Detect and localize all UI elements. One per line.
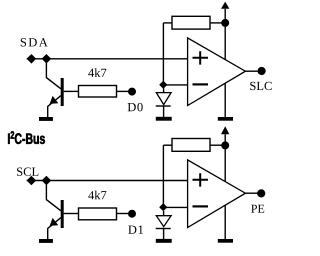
node junction diamond on SCL wire bbox=[42, 176, 52, 186]
node supply dot bottom bbox=[221, 141, 229, 149]
wire U1 output bbox=[245, 70, 257, 72]
resistor feedback R4 bottom bbox=[172, 139, 210, 152]
node SCL terminal diamond bbox=[27, 176, 37, 186]
label D0 bbox=[128, 103, 143, 111]
wire emitter Q1 bbox=[48, 96, 61, 118]
node SDA terminal diamond bbox=[27, 54, 37, 64]
transistor Q1 emitter arrow (PNP) bbox=[50, 96, 59, 104]
label 4k7 top bbox=[88, 68, 106, 77]
wire feedback rail top bbox=[163, 22, 172, 24]
transistor Q1 base bar bbox=[61, 78, 64, 106]
diode D4 triangle bbox=[156, 216, 171, 227]
node PE output dot bbox=[257, 189, 265, 197]
wire diode to ground bbox=[163, 106, 165, 117]
diode D3 triangle bbox=[156, 93, 171, 105]
label PE bbox=[251, 205, 264, 213]
resistor 4k7 bottom bbox=[79, 208, 117, 220]
wire U2 output bbox=[245, 192, 257, 194]
node SLC output dot bbox=[258, 67, 266, 75]
ground below U2 bbox=[218, 239, 233, 243]
wire resistor to D0 bbox=[117, 90, 129, 92]
ground below U1 bbox=[218, 117, 233, 121]
node junction diamond at D1 anode / - input bbox=[159, 81, 167, 89]
resistor feedback R2 top bbox=[172, 16, 210, 29]
wire supply vertical to U2 bbox=[224, 134, 226, 181]
op-amp U2 minus input symbol bbox=[193, 205, 209, 207]
wire diamond to diode D3 bbox=[163, 89, 165, 93]
wire diode to ground bbox=[163, 229, 165, 240]
ground below Q1 bbox=[39, 117, 53, 121]
op-amp U1 minus input symbol bbox=[193, 83, 209, 85]
wire SCL horizontal to op-amp U2 + input bbox=[27, 180, 188, 182]
wire resistor to D1 bbox=[117, 213, 129, 215]
op-amp U1 triangle bbox=[188, 38, 246, 106]
wire emitter Q2 bbox=[48, 218, 61, 240]
node SDA label bbox=[21, 38, 48, 46]
resistor 4k7 top bbox=[79, 86, 117, 98]
ground below diode D3 bbox=[156, 117, 172, 121]
wire feedback resistor to supply dot bottom bbox=[210, 144, 225, 146]
wire feedback left vertical bottom (to diode anode) bbox=[162, 145, 164, 207]
wire feedback resistor to supply dot bbox=[210, 22, 225, 24]
op-amp U2 plus input symbol bbox=[193, 173, 209, 186]
op-amp U1 plus input symbol bbox=[193, 51, 209, 64]
label SLC bbox=[250, 82, 271, 90]
node junction diamond at D4 anode / - input bbox=[159, 203, 167, 211]
transistor Q2 emitter arrow (PNP) bbox=[50, 218, 59, 226]
node supply dot bbox=[221, 19, 229, 27]
wire collector Q1 to resistor bbox=[64, 90, 79, 92]
wire U2 negative supply bbox=[224, 205, 226, 239]
label D1 bbox=[128, 226, 143, 234]
wire - input of U2 bbox=[163, 206, 187, 208]
ground below diode D4 bbox=[156, 239, 172, 243]
op-amp U2 triangle bbox=[188, 160, 246, 228]
diode D4 cathode bar bbox=[156, 228, 171, 230]
wire collector Q2 to resistor bbox=[64, 213, 79, 215]
label I2C-Bus bbox=[8, 131, 45, 144]
node junction diamond on SDA wire bbox=[42, 54, 52, 64]
power arrow Vcc top bbox=[221, 2, 229, 9]
wire feedback left vertical (to diode anode) bbox=[162, 23, 164, 85]
ground below Q2 bbox=[39, 239, 53, 243]
wire base drop of Q2 bbox=[46, 181, 61, 211]
wire U1 negative supply bbox=[224, 83, 226, 117]
transistor Q2 base bar bbox=[61, 200, 64, 228]
power arrow Vcc bottom bbox=[221, 126, 229, 134]
diode D3 cathode bar bbox=[156, 105, 171, 107]
label 4k7 bottom bbox=[88, 191, 106, 200]
wire SDA horizontal to op-amp U1 + input bbox=[27, 58, 188, 60]
node D1 dot bbox=[128, 210, 136, 218]
wire feedback rail bottom bbox=[163, 144, 172, 146]
node D0 dot bbox=[128, 88, 136, 96]
wire base drop of Q1 bbox=[46, 59, 61, 89]
node SCL label bbox=[17, 168, 38, 176]
wire diamond to diode D4 bbox=[163, 211, 165, 216]
wire supply vertical to U1 bbox=[224, 9, 226, 60]
wire - input of U1 bbox=[163, 84, 187, 86]
